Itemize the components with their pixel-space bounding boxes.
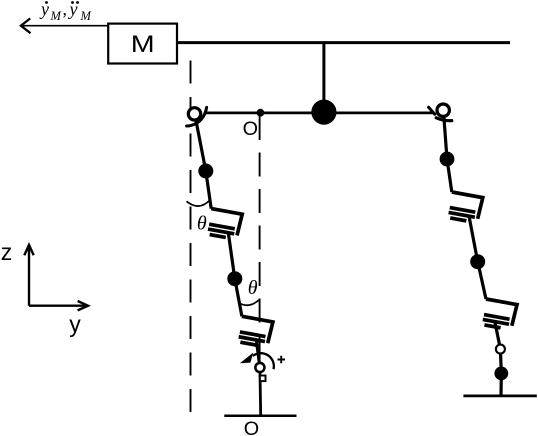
right knee dot 1 xyxy=(440,152,455,167)
svg-text:z: z xyxy=(1,239,13,265)
svg-text:M: M xyxy=(80,9,92,23)
svg-text:θ: θ xyxy=(197,212,207,234)
left foot rod to ground xyxy=(258,368,262,416)
diacritic dots xyxy=(45,1,79,4)
right leg upper segment xyxy=(443,110,451,192)
left ground line xyxy=(224,415,296,418)
hanger wire xyxy=(322,43,325,112)
right lower rod xyxy=(495,323,501,396)
left knee dot 1 xyxy=(198,164,213,179)
left ankle circle xyxy=(255,363,264,372)
left lower rod xyxy=(257,341,260,368)
svg-text:,: , xyxy=(63,0,68,19)
dashed vertical through left hip xyxy=(190,61,192,413)
theta1 arc xyxy=(187,200,211,206)
y axis arrowhead xyxy=(78,301,88,310)
left damper 2 xyxy=(237,316,273,347)
left hip pivot circle xyxy=(188,108,200,120)
right foot dot xyxy=(494,367,508,381)
left leg upper segment xyxy=(195,114,212,209)
svg-text:M: M xyxy=(50,9,62,23)
left hip arc xyxy=(187,107,207,126)
right damper 2 xyxy=(481,299,517,330)
left leg middle segment xyxy=(228,232,242,316)
top rail xyxy=(177,41,510,44)
left damper 1 xyxy=(207,209,243,240)
y axis line xyxy=(29,305,87,307)
theta2 arc xyxy=(239,300,260,306)
node O dot on bar xyxy=(257,109,265,117)
right hip tick xyxy=(429,107,435,114)
svg-text:y: y xyxy=(69,311,81,337)
right hip under-bar xyxy=(436,118,452,121)
right damper 1 xyxy=(447,192,483,223)
right leg middle segment xyxy=(469,216,486,300)
torque arrowhead xyxy=(240,353,253,364)
hip bar xyxy=(206,112,433,115)
right ground line xyxy=(463,395,536,398)
right ankle circle xyxy=(496,345,505,354)
velocity arrow xyxy=(21,18,108,33)
label ydotM, yddotM xyxy=(39,0,92,23)
ankle torque arc xyxy=(253,353,274,369)
left knee dot 2 xyxy=(227,271,242,286)
svg-text:O: O xyxy=(243,118,258,140)
mass block M xyxy=(108,24,177,64)
z axis arrowhead xyxy=(24,245,33,255)
dashed vertical through node O xyxy=(259,116,261,359)
hip mass dot xyxy=(311,100,336,125)
svg-text:θ: θ xyxy=(248,277,258,299)
right knee dot 2 xyxy=(470,254,485,269)
z axis line xyxy=(28,246,30,306)
ankle square xyxy=(260,376,266,382)
svg-text:O: O xyxy=(244,418,259,436)
right hip pivot circle xyxy=(437,104,449,116)
svg-text:M: M xyxy=(131,31,155,58)
plus sign xyxy=(278,356,286,364)
